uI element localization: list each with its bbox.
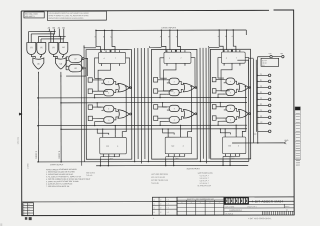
bus group left of block 1 xyxy=(81,45,84,166)
terminal row B1 xyxy=(258,80,269,82)
wires from U1 U2 outputs into OR gate U5 xyxy=(31,55,41,58)
bus wire Y3 xyxy=(38,124,247,127)
block 3 and-gate b xyxy=(226,89,235,95)
long vertical wire from U5 output xyxy=(37,72,39,162)
drawing border frame xyxy=(21,10,294,216)
block 2 nor-gate cd xyxy=(183,110,194,119)
gate U1 (quad input, top-left) xyxy=(27,43,36,55)
adder bit-slice block 1 outline xyxy=(86,50,132,160)
block 3 nor-gate cd xyxy=(239,109,249,118)
bus wire Y2 xyxy=(61,101,247,103)
gate U8 (horizontal nand lower) xyxy=(69,64,83,72)
block 3 and-gate d xyxy=(226,116,235,122)
adder bit-slice block 3 outline xyxy=(210,49,250,159)
or-gate U6 (second level right) xyxy=(55,58,66,69)
block 2 and-gate c xyxy=(169,105,179,111)
block 3 bottom IC U31 (sum) xyxy=(223,137,246,154)
block 1 and-gate a xyxy=(104,78,114,84)
block 1 carry-in feed wire xyxy=(84,46,96,48)
carry wire from block 3 to edge xyxy=(237,58,253,161)
left border match-line arrow xyxy=(19,113,22,115)
terminal row A4 xyxy=(258,110,269,112)
block 2 and-gate a xyxy=(169,78,179,84)
block 2 sum output drops xyxy=(166,159,174,166)
input stubs of U7 U8 xyxy=(66,57,69,70)
block 2 and-gate b xyxy=(169,89,179,95)
quantity table xyxy=(177,197,224,215)
bus wire Y4 xyxy=(61,128,247,130)
block 2 wire from IC to gates xyxy=(160,58,195,91)
block 2 rail taps into gates xyxy=(160,94,167,107)
block 2 carry-in feed wire xyxy=(149,46,161,48)
bus group right of block 3 xyxy=(253,59,256,143)
terminal row C0 xyxy=(258,122,269,124)
wires from U3 U4 outputs into OR gate U6 xyxy=(53,54,63,57)
title strip top rule xyxy=(22,200,294,203)
terminal row A2 xyxy=(258,86,269,88)
or-gate U5 (second level left) xyxy=(33,58,44,69)
junction dots on ladder xyxy=(49,31,50,32)
marks below revision table xyxy=(25,217,27,220)
terminal row B4 xyxy=(258,116,269,118)
bus wire Y1 xyxy=(38,96,247,99)
block 2 and-gate d xyxy=(169,117,179,123)
block 3 and-gate a xyxy=(226,78,235,84)
block 3 left edge buffer stubs xyxy=(212,77,216,81)
block 2 input drop wires xyxy=(161,30,180,52)
block 2 bottom IC U21 (sum) xyxy=(165,137,192,154)
scan speck bottom left xyxy=(0,223,2,226)
gate U4 xyxy=(59,42,68,54)
title block left cells xyxy=(152,197,177,215)
note box 2 xyxy=(47,11,106,20)
adder bit-slice block 2 outline xyxy=(151,49,197,159)
gate U3 xyxy=(49,42,58,54)
block 1 nor-gate ab xyxy=(118,83,129,92)
gate U2 xyxy=(37,42,46,54)
block 1 bottom IC U11 (sum) xyxy=(100,137,127,154)
note box 1 xyxy=(24,12,44,18)
block 3 top IC U30 (carry gate) xyxy=(221,52,245,63)
logic inputs rail wire xyxy=(96,29,246,31)
block 2 left edge buffer stubs xyxy=(154,78,158,82)
long vertical wire from U6 output xyxy=(60,72,62,162)
block 3 input drop wires xyxy=(219,30,236,52)
decoupling note box C1-C4 xyxy=(261,58,279,66)
block 3 nor-gate ab xyxy=(238,83,248,92)
terminal row A3 xyxy=(258,98,269,100)
revision strip right margin xyxy=(295,107,301,160)
block 2 top IC U20 (carry gate) xyxy=(164,52,191,63)
wire ladder from input labels to gate inputs xyxy=(29,29,66,43)
block 1 nor-gate cd xyxy=(118,110,129,119)
block 1 and-gate c xyxy=(104,105,114,111)
block 3 gate interconnect wires xyxy=(235,81,239,92)
bus group between block 2 and 3 xyxy=(199,48,209,164)
title block outline xyxy=(152,197,294,215)
block 1 and-gate d xyxy=(104,117,114,123)
terminal row B3 xyxy=(258,104,269,106)
terminal row B2 xyxy=(258,92,269,94)
microfilm scale strip xyxy=(262,211,292,215)
gate U7 (horizontal nand upper) xyxy=(69,55,83,63)
block 1 left edge buffer stubs xyxy=(88,78,92,82)
power rail wire +5V xyxy=(258,56,282,58)
block 1 and-gate b xyxy=(104,90,114,96)
block 3 and-gate c xyxy=(226,105,235,111)
block 1 gate interconnect wires xyxy=(114,82,118,93)
block 3 rail taps into gates xyxy=(218,94,224,107)
block 3 wire from IC to gates xyxy=(218,58,249,91)
ground rail wire xyxy=(232,142,284,144)
block 2 nor-gate ab xyxy=(183,83,194,92)
block 1 rail taps into gates xyxy=(95,94,102,107)
company logo box xyxy=(224,197,248,204)
block 1 input drop wires xyxy=(96,30,115,52)
sum outputs rail wire xyxy=(96,164,248,166)
output wires of U7 U8 to bus xyxy=(66,59,87,76)
terminal ladder vertical wire xyxy=(257,57,259,132)
block 1 wire from IC to gates xyxy=(95,58,130,91)
block 3 sum output drops xyxy=(223,159,230,166)
terminal row A1 xyxy=(258,74,269,76)
terminal bottom row xyxy=(258,130,269,132)
revision table xyxy=(23,203,34,216)
bus group between block 1 and 2 xyxy=(134,48,149,164)
block 3 carry-in feed wire xyxy=(209,46,220,48)
block 1 top IC U10 (carry gate) xyxy=(99,52,126,63)
title block subrows xyxy=(224,204,294,215)
block 2 gate interconnect wires xyxy=(179,81,183,92)
carry output rail wire xyxy=(38,160,249,163)
block 1 sum output drops xyxy=(100,159,108,166)
